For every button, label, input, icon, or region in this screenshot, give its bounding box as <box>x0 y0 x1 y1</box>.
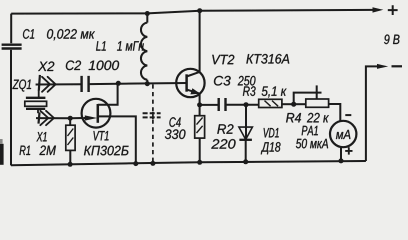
wire X1 to gate node <box>36 117 84 119</box>
capacitor C2 <box>82 76 89 92</box>
label VT1 <box>93 131 108 140</box>
capacitor C3 <box>219 98 226 111</box>
node battery minus arrowhead <box>377 64 388 69</box>
wire C2 to VT2 base <box>90 83 187 84</box>
wire node riser stub <box>294 93 322 105</box>
label VD1 <box>264 128 279 137</box>
node junction source ground <box>133 161 138 166</box>
resistor R1 <box>69 118 71 164</box>
label VD1 type <box>261 142 281 154</box>
node battery plus arrowhead <box>373 7 384 12</box>
wire X2 to C2 <box>36 83 81 85</box>
wire VT2 collector <box>187 11 200 77</box>
crystal ZQ1 <box>26 97 46 99</box>
node junction VD1 ground <box>243 159 248 164</box>
capacitor C4 stray dashed <box>152 84 154 111</box>
resistor R3 <box>259 99 282 107</box>
wire ZQ1 link lower <box>37 110 39 114</box>
meter PA1 <box>330 121 356 147</box>
resistor R2 <box>199 105 201 163</box>
label VT2 type <box>246 54 289 64</box>
artifact left edge blob <box>0 144 4 165</box>
wire VT1 source <box>98 116 136 163</box>
label L1 <box>96 41 106 50</box>
wire top rail <box>11 10 374 14</box>
label battery 9V <box>384 35 399 45</box>
node junction L1 bottom <box>145 81 150 86</box>
label R1 value <box>39 146 55 156</box>
label R2 value <box>211 139 235 149</box>
wire left rail upper <box>10 14 12 44</box>
capacitor C1 <box>2 45 22 49</box>
node junction collector top <box>197 8 202 13</box>
wire C3 to R3 <box>227 104 259 106</box>
label X2 <box>38 62 54 72</box>
wire VT1 gate arrow <box>84 117 86 119</box>
node junction meter ground <box>339 158 344 163</box>
label L1 value <box>117 41 144 50</box>
connector X1 <box>39 112 40 123</box>
node junction R2 ground <box>197 160 202 165</box>
label C1 <box>23 29 34 39</box>
node meter plus sign <box>345 147 352 154</box>
label PA1 <box>302 126 318 135</box>
label C1 value <box>47 29 95 40</box>
label C2 value <box>89 61 119 71</box>
node junction emitter <box>197 102 202 107</box>
connector X2 <box>39 75 40 91</box>
label C3 value <box>238 76 256 86</box>
label PA1 value <box>296 139 328 149</box>
node junction L1 top <box>145 11 150 16</box>
label R1 <box>20 146 31 155</box>
node junction R1 top <box>68 116 73 121</box>
label C3 <box>214 76 231 86</box>
wire left rail lower <box>10 50 12 166</box>
label ZQ1 <box>12 80 31 92</box>
wire emitter to C3 <box>200 104 218 106</box>
label R3 <box>243 86 256 96</box>
transistor VT1 <box>82 99 111 128</box>
node junction drain <box>116 81 121 86</box>
diode VD1 <box>245 105 247 140</box>
label meter units <box>336 130 350 139</box>
node junction C4 ground <box>150 161 155 166</box>
label C4 <box>169 117 180 127</box>
node junction VD1 top <box>244 102 249 107</box>
wire VT1 drain <box>98 83 118 105</box>
label VT1 type <box>84 146 129 156</box>
wire VT2 emitter <box>187 90 200 105</box>
label R2 <box>217 124 233 134</box>
label R4 <box>286 113 301 122</box>
wire ZQ1 link upper <box>38 90 40 97</box>
inductor L1 <box>146 13 148 22</box>
node meter minus sign <box>345 114 351 116</box>
label VT2 <box>212 55 234 64</box>
node junction R1 bottom <box>68 162 73 167</box>
wire R3 to node <box>282 103 294 105</box>
wire bottom rail <box>11 161 366 165</box>
label R3 value <box>262 86 287 97</box>
label C2 <box>66 61 81 71</box>
label R4 value <box>307 113 329 123</box>
label X1 <box>36 132 46 141</box>
node junction R3 R4 <box>291 102 296 107</box>
label C4 value <box>165 129 186 139</box>
resistor R4 <box>294 103 306 105</box>
node minus sign <box>392 65 403 67</box>
wire right minus riser <box>366 66 378 161</box>
node plus sign <box>388 5 398 15</box>
transistor VT2 <box>176 69 204 97</box>
